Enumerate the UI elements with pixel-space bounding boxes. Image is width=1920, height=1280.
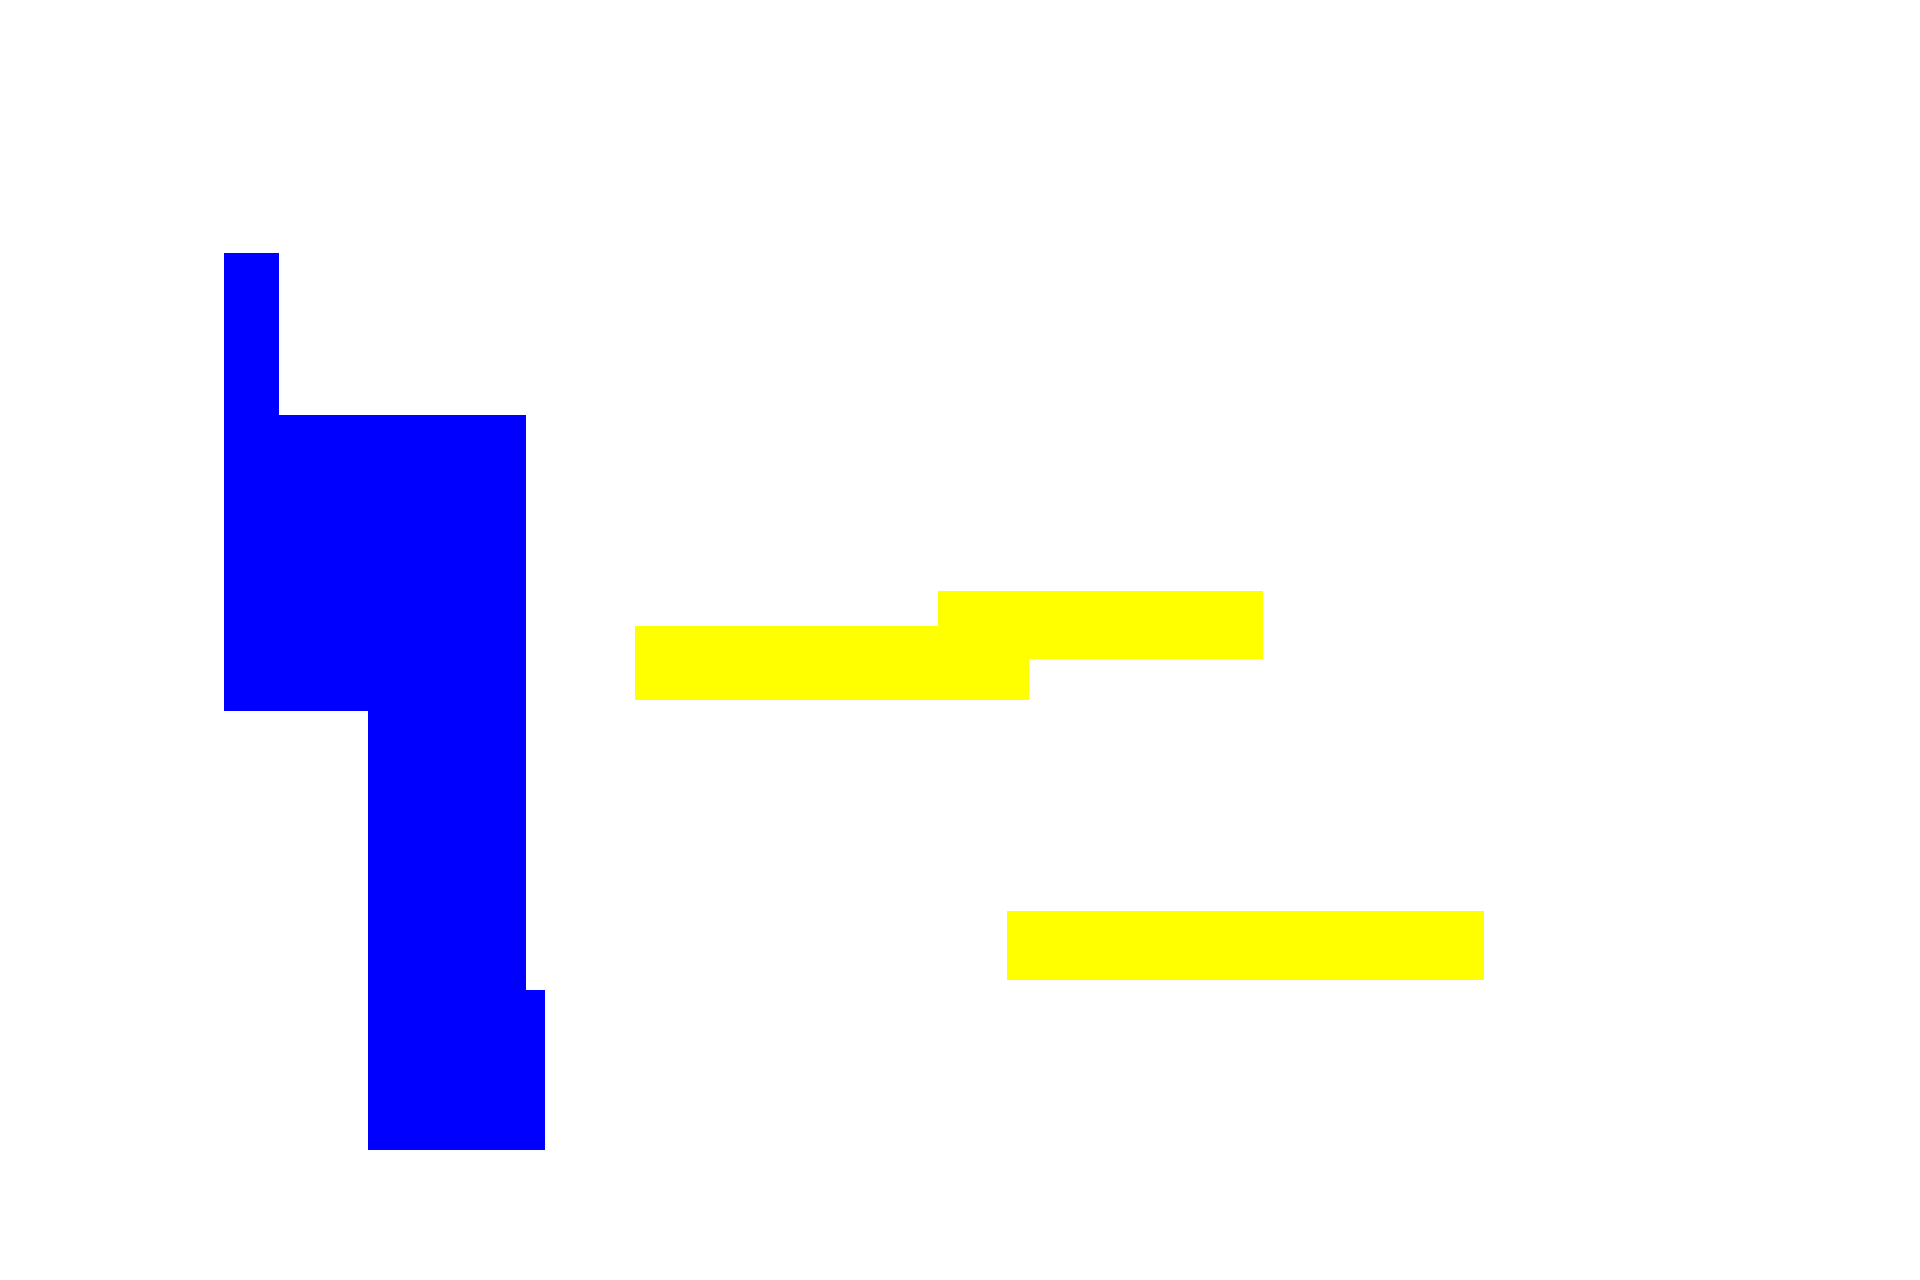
blue shape: wide middle rectangle — [224, 415, 526, 711]
yellow shape: upper-right strip — [938, 591, 1263, 659]
blue shape: top narrow column — [224, 253, 279, 711]
blue shape: lower column — [368, 711, 526, 990]
yellow shape: lower-left strip — [635, 626, 1029, 700]
yellow bar: bottom — [1007, 911, 1484, 980]
blue shape: bottom block — [368, 990, 545, 1150]
